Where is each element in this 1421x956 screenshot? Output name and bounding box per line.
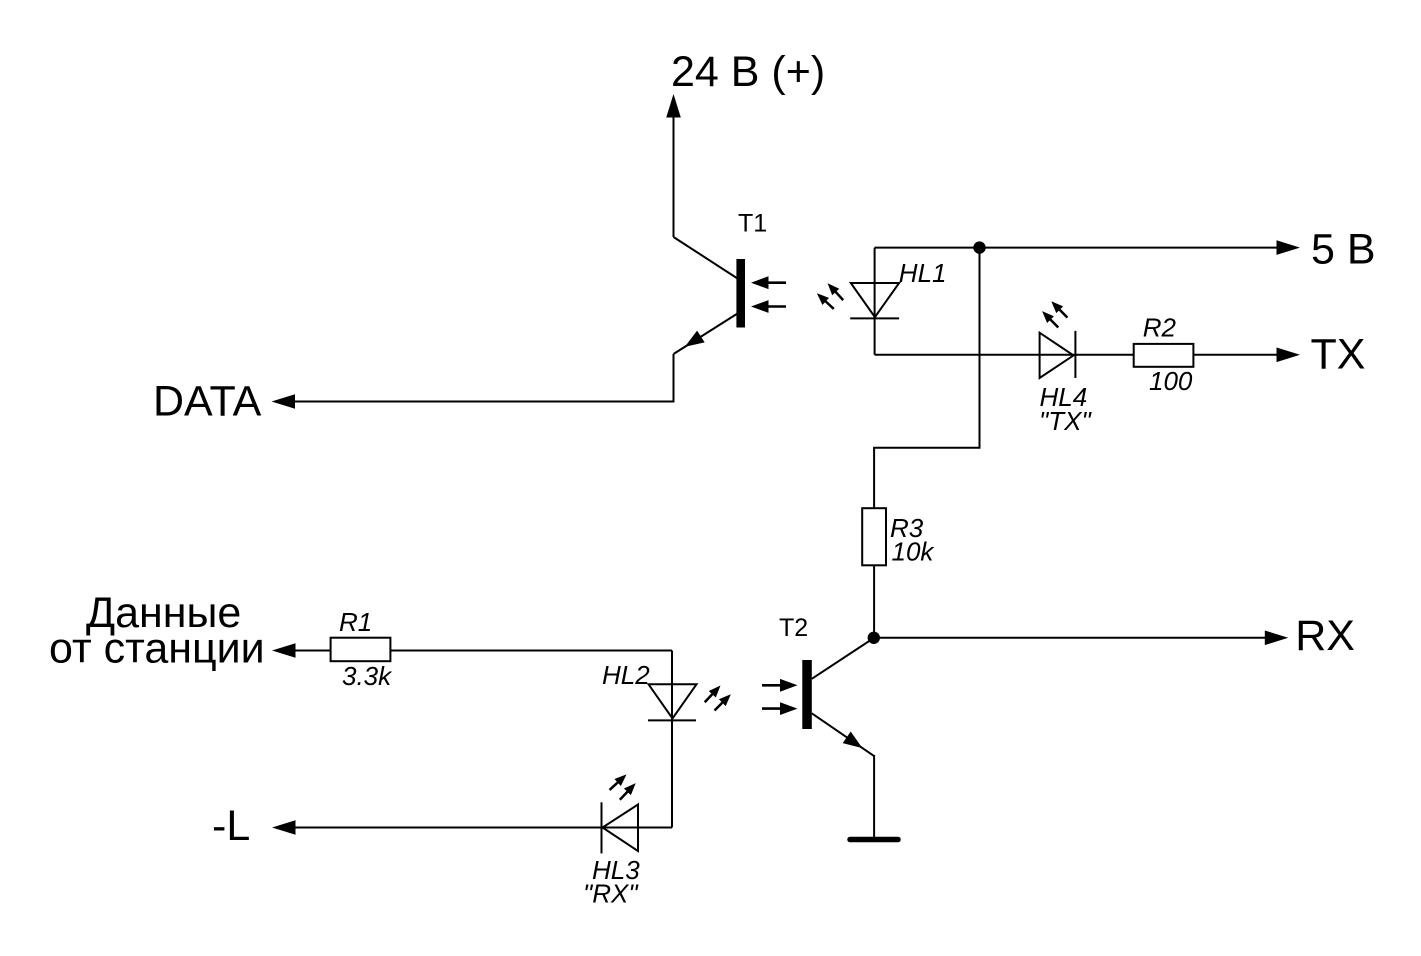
svg-text:от станции: от станции [49, 625, 265, 673]
wire Данные row [295, 650, 672, 652]
light arrow into T1 lower [751, 300, 786, 313]
svg-text:24 В (+): 24 В (+) [671, 48, 825, 96]
light ray HL3 a [606, 771, 629, 794]
resistor R1 [331, 638, 391, 662]
svg-text:RX: RX [1295, 612, 1355, 660]
transistor T2 [802, 638, 874, 756]
node junction RX [868, 632, 880, 644]
resistor R2 [1134, 344, 1194, 367]
svg-text:DATA: DATA [153, 378, 262, 426]
light arrow into T1 upper [751, 276, 786, 289]
arrow DATA [272, 394, 296, 409]
wire R3 to RX node [873, 565, 875, 638]
svg-text:3.3k: 3.3k [342, 661, 393, 691]
LED HL4 [1040, 331, 1076, 378]
svg-text:TX: TX [1311, 331, 1366, 379]
light arrow into T2 lower [762, 702, 798, 715]
svg-text:HL2: HL2 [602, 660, 650, 690]
light ray HL2 b [711, 691, 734, 714]
wire T1 emitter to DATA [295, 354, 674, 402]
svg-text:R1: R1 [339, 607, 372, 637]
wire T2 emitter to ground [873, 755, 875, 837]
svg-text:"TX": "TX" [1039, 406, 1092, 436]
node junction 5V [973, 241, 985, 253]
svg-text:-L: -L [212, 802, 250, 850]
LED HL1 [850, 283, 899, 318]
light ray HL2 a [701, 682, 724, 705]
arrow -L [272, 820, 296, 835]
resistor R3 [862, 508, 886, 565]
ground [850, 837, 898, 843]
svg-text:T1: T1 [738, 210, 767, 238]
wire 5V rail [875, 247, 1278, 249]
light ray HL1 b [814, 290, 837, 313]
svg-text:T2: T2 [779, 614, 808, 642]
wire T1 collector [674, 237, 738, 279]
wire TX row [875, 354, 1278, 356]
arrow 5V [1277, 240, 1301, 255]
svg-text:5 В: 5 В [1311, 225, 1376, 273]
arrow Данные [272, 643, 296, 658]
svg-text:R2: R2 [1143, 313, 1177, 343]
arrow RX [1265, 631, 1289, 646]
light ray HL4 a [1048, 298, 1071, 321]
arrow TX [1277, 348, 1301, 363]
wire HL1 anode/cathode vertical [874, 248, 876, 355]
light ray HL3 b [616, 780, 639, 803]
light arrow into T2 upper [762, 679, 798, 692]
light ray HL1 a [824, 280, 847, 303]
LED HL2 [648, 684, 697, 720]
svg-text:10k: 10k [892, 537, 936, 567]
wire junction to R3 [874, 248, 979, 509]
wire -L row [295, 827, 672, 829]
power 24V arrow [666, 94, 681, 237]
transistor T1 [674, 259, 746, 354]
wire RX [874, 637, 1266, 639]
svg-text:"RX": "RX" [583, 879, 639, 909]
svg-text:HL1: HL1 [899, 258, 947, 288]
wire HL2 branch [671, 651, 673, 828]
LED HL3 [602, 802, 639, 853]
svg-text:100: 100 [1149, 366, 1193, 396]
light ray HL4 b [1039, 308, 1062, 331]
